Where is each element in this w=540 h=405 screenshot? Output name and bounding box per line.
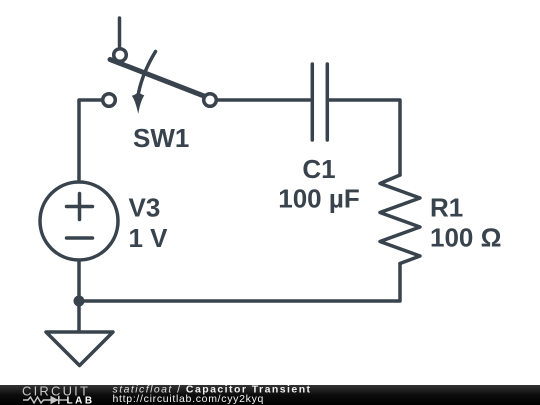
switch SW1 motion arrow arc (139, 52, 156, 93)
wire top stub to switch throw 1 (118, 18, 122, 46)
svg-text:100 Ω: 100 Ω (430, 223, 501, 253)
node junction dot at V3 bottom (74, 296, 85, 307)
switch SW1 (103, 49, 217, 107)
capacitor C1 plate right (326, 64, 330, 140)
switch SW1 blade (110, 60, 207, 98)
switch SW1 right terminal circle (204, 94, 217, 107)
switch SW1 top terminal circle (114, 49, 127, 62)
capacitor C1 plate left (311, 64, 315, 140)
svg-text:LAB: LAB (67, 395, 95, 405)
footer bar background (0, 385, 540, 405)
wire from SW1 left terminal down to V3 top (79, 100, 101, 181)
wire switch right terminal to C1 (217, 98, 310, 102)
svg-text:http://circuitlab.com/cyy2kyq: http://circuitlab.com/cyy2kyq (113, 393, 265, 405)
voltage source V3 circle (40, 182, 118, 260)
svg-text:100 µF: 100 µF (278, 184, 359, 214)
ground symbol (46, 332, 113, 366)
wire C1 to R1 top corner (330, 100, 401, 175)
svg-text:SW1: SW1 (133, 123, 189, 153)
resistor R1 zigzag (380, 175, 420, 264)
switch SW1 arrowhead (132, 91, 145, 115)
wire bottom horizontal from junction to R1 bottom (79, 264, 400, 302)
switch SW1 left terminal circle (103, 94, 116, 107)
svg-text:C1: C1 (302, 154, 335, 184)
wire V3 bottom to ground (77, 260, 81, 331)
svg-text:R1: R1 (430, 193, 463, 223)
svg-text:1 V: 1 V (129, 223, 169, 253)
voltage source V3 minus sign (67, 236, 93, 240)
voltage source V3 plus sign (67, 194, 93, 220)
CircuitLab logo resistor-diode symbol (23, 397, 52, 403)
svg-text:V3: V3 (129, 193, 161, 223)
